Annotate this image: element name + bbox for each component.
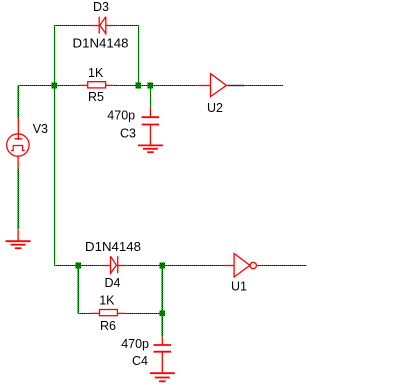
svg-text:U1: U1 [231, 279, 247, 293]
wire C3 branch vertical x=150.4 [149, 86, 151, 108]
wire V3 top vertical x=18.3 [17, 86, 19, 119]
diode D3 [91, 17, 114, 34]
U2 output pin (navy) [227, 85, 244, 87]
wire R6 row horizontal right [126, 312, 163, 314]
wire C4 branch vertical x=162.3 [161, 266, 163, 337]
voltage source V3 [7, 118, 29, 169]
diode D4 [103, 256, 126, 273]
wire U1 output green [257, 265, 307, 267]
wire left vertical x=54.4 from top loop down to bottom wire [53, 26, 55, 266]
wire R6 row horizontal left [78, 312, 90, 314]
capacitor C4 [154, 337, 172, 373]
svg-text:D1N4148: D1N4148 [85, 240, 141, 254]
svg-text:470p: 470p [107, 109, 135, 123]
wire main horizontal y=85.5 from V3 corner to R5 [18, 85, 79, 87]
capacitor C3 [142, 108, 160, 145]
svg-text:C4: C4 [132, 354, 148, 368]
junction node at (138.4,85.5) [136, 83, 142, 89]
wire bottom horizontal y=265.5 right part to U1 [126, 265, 224, 267]
wire top loop horizontal right segment [114, 25, 139, 27]
svg-text:V3: V3 [33, 122, 48, 136]
junction node at (162.3,313.4) [160, 311, 166, 317]
wire U2 output green [244, 85, 283, 87]
svg-text:D3: D3 [93, 0, 109, 14]
svg-text:D1N4148: D1N4148 [73, 37, 129, 51]
ground under V3 [6, 229, 31, 248]
junction node at (54.4,85.5) [52, 83, 58, 89]
svg-text:R5: R5 [88, 90, 104, 104]
inverter U1 [223, 253, 256, 277]
junction node at (150.4,85.5) [148, 83, 154, 89]
wire main horizontal y=85.5 from R5 to U2 input [114, 85, 199, 87]
wire bottom horizontal y=265.5 left part [54, 265, 102, 267]
svg-text:C3: C3 [120, 126, 136, 140]
resistor R6 [91, 310, 126, 316]
svg-text:1K: 1K [88, 66, 104, 80]
buffer U2 [198, 74, 226, 97]
resistor R5 [79, 82, 114, 88]
junction node at (78.3,265.5) [76, 263, 82, 269]
ground under C3 [138, 145, 163, 152]
wire V3 bottom vertical to ground [17, 169, 19, 230]
wire diode-loop right vertical x=138.4 [137, 26, 139, 86]
ground under C4 [150, 373, 175, 381]
wire R6 loop left vertical x=78.3 [77, 266, 79, 314]
junction node at (162.3,265.5) [160, 263, 166, 269]
svg-text:1K: 1K [99, 293, 115, 307]
svg-text:R6: R6 [100, 319, 116, 333]
svg-text:U2: U2 [207, 101, 223, 115]
wire top loop horizontal left segment [54, 25, 90, 27]
svg-text:D4: D4 [105, 276, 121, 290]
svg-text:470p: 470p [121, 337, 149, 351]
